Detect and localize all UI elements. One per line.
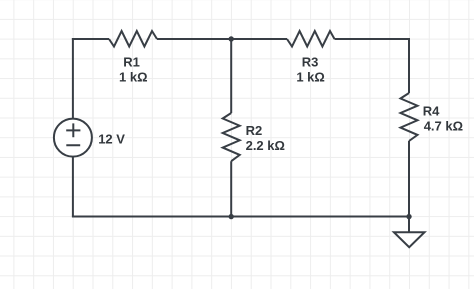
svg-text:1 kΩ: 1 kΩ: [119, 70, 148, 85]
wire left vertical upper: [72, 38, 74, 118]
wire bottom horizontal: [72, 216, 409, 218]
wire middle vertical upper: [230, 39, 232, 113]
svg-text:R3: R3: [302, 55, 319, 70]
wire right vertical lower: [408, 141, 410, 217]
resistor R1: [109, 31, 157, 47]
wire top-right horizontal: [335, 38, 410, 40]
svg-text:1 kΩ: 1 kΩ: [296, 70, 325, 85]
node junction top: [229, 36, 234, 41]
svg-text:R4: R4: [423, 104, 440, 119]
resistor R3: [287, 31, 335, 47]
wire top middle: [157, 38, 287, 40]
wire right vertical upper: [408, 38, 410, 93]
svg-text:R1: R1: [123, 54, 140, 69]
ground: [394, 217, 425, 248]
node junction bottom-right (ground): [406, 214, 411, 219]
node junction bottom (R2): [229, 214, 234, 219]
svg-text:2.2 kΩ: 2.2 kΩ: [246, 138, 285, 153]
wire middle vertical lower: [230, 161, 232, 216]
svg-text:R2: R2: [246, 123, 263, 138]
resistor R4: [401, 93, 418, 141]
svg-text:12 V: 12 V: [98, 132, 125, 147]
wire top-left horizontal: [72, 38, 109, 40]
resistor R2: [223, 113, 240, 161]
wire left vertical lower: [72, 156, 74, 216]
svg-text:4.7 kΩ: 4.7 kΩ: [424, 119, 463, 134]
voltage source V1 12 V: [54, 119, 92, 157]
